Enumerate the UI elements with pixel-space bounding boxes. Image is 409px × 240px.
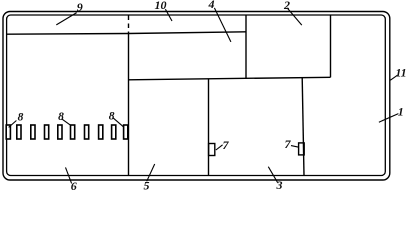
svg-text:6: 6 <box>71 179 77 191</box>
svg-text:1: 1 <box>398 105 404 119</box>
svg-text:8: 8 <box>109 111 115 123</box>
svg-text:10: 10 <box>155 0 167 12</box>
svg-text:7: 7 <box>223 138 230 152</box>
svg-text:9: 9 <box>77 0 83 14</box>
svg-text:8: 8 <box>18 112 24 124</box>
svg-text:5: 5 <box>144 179 150 192</box>
svg-text:2: 2 <box>283 0 290 12</box>
svg-text:7: 7 <box>285 137 292 151</box>
svg-text:3: 3 <box>276 178 283 191</box>
svg-text:11: 11 <box>395 66 406 80</box>
svg-text:4: 4 <box>208 0 215 11</box>
svg-text:8: 8 <box>58 111 64 123</box>
